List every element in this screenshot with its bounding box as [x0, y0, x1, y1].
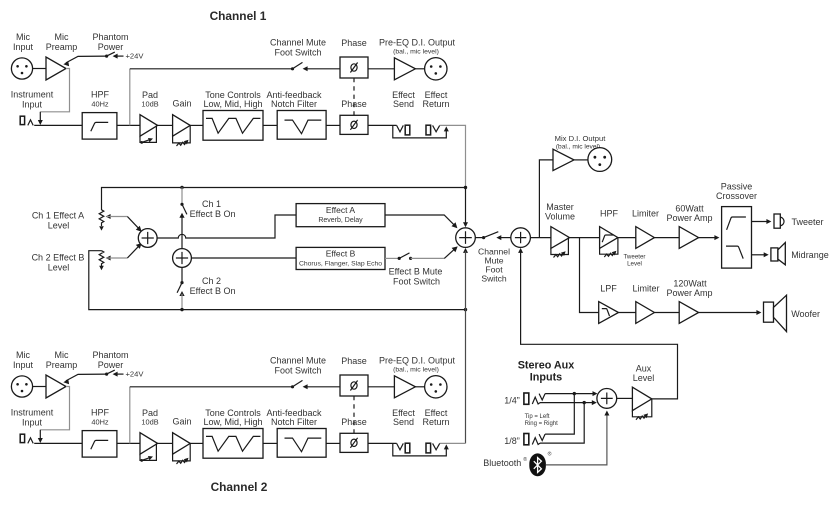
svg-text:Channel 2: Channel 2: [211, 480, 268, 494]
effect send jack contact (ch1): [397, 125, 404, 131]
passive crossover block: [722, 207, 752, 269]
gain control amplifier (ch2): [173, 433, 191, 455]
svg-text:Midrange: Midrange: [791, 250, 829, 260]
anti-feedback notch filter block (ch2): [277, 429, 326, 458]
phase switch block (ch2 main): [340, 433, 368, 452]
svg-text:Passive: Passive: [721, 182, 753, 192]
effect B mute foot switch: [398, 257, 401, 260]
svg-text:Effect B Mute: Effect B Mute: [389, 267, 443, 277]
svg-text:Instrument: Instrument: [11, 90, 54, 100]
wire branch up to mix DI: [539, 160, 553, 238]
pre-EQ DI output amplifier (ch1): [394, 58, 415, 80]
svg-text:Mic: Mic: [55, 350, 69, 360]
svg-text:Limiter: Limiter: [632, 283, 659, 293]
svg-text:Input: Input: [13, 360, 34, 370]
svg-text:Phantom: Phantom: [92, 32, 128, 42]
svg-text:Foot Switch: Foot Switch: [274, 366, 321, 376]
svg-text:Mic: Mic: [16, 32, 30, 42]
limiter (tweeter path): [636, 227, 655, 249]
svg-text:Inputs: Inputs: [530, 371, 562, 383]
svg-text:Ch 1 Effect A: Ch 1 Effect A: [32, 210, 84, 220]
wire 1/8 tip up to tip bus: [540, 403, 584, 444]
svg-text:Effect B On: Effect B On: [190, 286, 236, 296]
wire channel 1 effects tap rail: [102, 188, 466, 211]
junction ch1 rail / ch1 signal line: [464, 186, 467, 189]
svg-text:Input: Input: [22, 418, 43, 428]
mix DI XLR output jack: [588, 148, 612, 172]
svg-text:Phase: Phase: [341, 417, 367, 427]
aux summing node: [597, 389, 617, 409]
svg-text:Aux: Aux: [636, 363, 652, 373]
phase switch block (ch2 top): [340, 375, 368, 396]
svg-text:60Watt: 60Watt: [675, 204, 704, 214]
tone controls block (ch1): [203, 111, 263, 141]
svg-text:Tweeter: Tweeter: [623, 254, 645, 261]
svg-text:Level: Level: [48, 262, 70, 272]
Bluetooth module logo: [529, 453, 546, 476]
svg-text:Input: Input: [22, 100, 43, 110]
svg-text:Level: Level: [627, 261, 642, 268]
svg-text:Stereo Aux: Stereo Aux: [518, 359, 575, 371]
wire aux sum to aux level: [617, 397, 633, 399]
wire notch to phase (ch2): [326, 442, 340, 444]
svg-text:1/4”: 1/4”: [504, 396, 520, 406]
dashed gang link between phase switches (ch2): [353, 396, 355, 433]
dashed gang link between phase switches (ch1): [353, 78, 355, 115]
svg-text:Volume: Volume: [545, 211, 575, 221]
wire limiter to 60W amp: [654, 237, 679, 239]
phantom power switch (ch1): [105, 55, 108, 58]
instrument input jack (ch1): [20, 116, 24, 124]
pad attenuator triangle (ch2): [140, 433, 158, 455]
wiper Ch2 Effect B Level to sum node A: [106, 256, 111, 261]
mix DI output amplifier: [553, 149, 574, 170]
svg-text:®: ®: [548, 451, 552, 458]
wire HPF to pad (ch2): [117, 442, 140, 444]
wire 1/4 ring to sum: [545, 393, 574, 395]
wire mute switch to aux sum node: [501, 237, 511, 239]
svg-text:Preamp: Preamp: [46, 42, 78, 52]
wire DI amp to mix XLR: [574, 159, 588, 161]
wire phase to pre-EQ DI amp (ch1): [368, 68, 394, 70]
wire ring bus into aux sum node: [574, 393, 594, 395]
wire effect A output to mix node: [385, 215, 456, 226]
switch Ch 2 Effect B On: [181, 267, 183, 281]
effects loop normal path (ch2): [393, 443, 447, 456]
wire HPF to pad (ch1): [117, 124, 140, 126]
svg-text:Gain: Gain: [172, 417, 191, 427]
wire gain to tone controls (ch2): [190, 442, 203, 444]
master volume amplifier: [551, 227, 570, 249]
junction ch2 rail / effect B feed: [180, 308, 183, 311]
pre-EQ DI XLR output jack (ch1): [425, 58, 447, 80]
wire effect B output to mute switch: [385, 257, 398, 259]
wire mute switch to phase (ch1): [306, 68, 341, 70]
wire 1/4 tip to sum: [540, 402, 584, 404]
mic preamp amplifier (ch1): [46, 57, 66, 80]
svg-text:Woofer: Woofer: [791, 309, 820, 319]
svg-text:Channel 1: Channel 1: [210, 9, 267, 23]
svg-text:Bluetooth: Bluetooth: [483, 458, 521, 468]
svg-text:LPF: LPF: [600, 283, 617, 293]
wire DI amp to XLR (ch2): [415, 386, 424, 388]
svg-text:10dB: 10dB: [141, 417, 158, 426]
svg-text:Pre-EQ D.I. Output: Pre-EQ D.I. Output: [379, 38, 456, 48]
wire main sum node to master volume: [530, 237, 551, 239]
svg-text:Ch 2 Effect B: Ch 2 Effect B: [32, 252, 85, 262]
wire notch to phase (ch1): [326, 124, 340, 126]
junction ch1 rail / effect B feed: [180, 186, 183, 189]
channel mute foot switch (ch1): [291, 67, 294, 70]
wire channel 2 effects tap rail: [89, 251, 466, 310]
instrument input jack (ch2): [20, 434, 24, 442]
summing node mix (channel mix): [456, 228, 476, 248]
svg-text:Switch: Switch: [481, 274, 507, 284]
svg-text:Low, Mid, High: Low, Mid, High: [203, 99, 262, 109]
wire tone to notch (ch2): [263, 442, 277, 444]
HPF block (ch1): [82, 113, 117, 140]
wire top row to channel mute switch (ch1): [130, 68, 291, 70]
effect send jack contact (ch2): [397, 443, 404, 449]
pre-EQ DI XLR output jack (ch2): [425, 376, 447, 398]
svg-text:Foot Switch: Foot Switch: [274, 48, 321, 58]
svg-text:Power Amp: Power Amp: [666, 213, 712, 223]
svg-text:+24V: +24V: [126, 370, 145, 379]
120 watt power amplifier: [679, 302, 698, 324]
wire master volume to HPF: [570, 237, 600, 239]
wire mic preamp output routed down to instrument line (ch2): [40, 387, 69, 430]
phase switch block (ch1 main): [340, 115, 368, 134]
wire branch up to mute/DI row (ch1): [129, 69, 131, 126]
wire pad to gain (ch2): [158, 442, 173, 444]
svg-text:Tweeter: Tweeter: [792, 217, 824, 227]
svg-text:Channel Mute: Channel Mute: [270, 38, 326, 48]
svg-text:Effect A: Effect A: [326, 205, 355, 215]
svg-text:Notch Filter: Notch Filter: [271, 99, 317, 109]
wire DI amp to XLR (ch1): [415, 68, 424, 70]
channel mute foot switch (master): [482, 236, 485, 239]
summing node B (effect B send mix): [173, 249, 192, 268]
svg-text:Return: Return: [422, 417, 449, 427]
effect send jack (ch2): [405, 443, 410, 453]
wire limiter to 120W amp: [654, 312, 679, 314]
wire branch up to mute/DI row (ch2): [129, 387, 131, 444]
svg-text:Preamp: Preamp: [46, 360, 78, 370]
svg-text:Return: Return: [422, 99, 449, 109]
wire jack to HPF (ch2): [34, 442, 82, 444]
HPF block (ch2): [82, 431, 117, 458]
svg-text:Gain: Gain: [172, 99, 191, 109]
svg-text:Power: Power: [98, 42, 124, 52]
svg-text:Phase: Phase: [341, 99, 367, 109]
wire crossover to midrange with arrow: [752, 254, 766, 256]
wire LPF to limiter: [619, 312, 636, 314]
potentiometer Ch 1 Effect A Level: [99, 210, 104, 226]
wire mic XLR to preamp (ch2): [33, 386, 46, 388]
phantom power switch (ch2): [105, 373, 108, 376]
mic preamp amplifier (ch2): [46, 375, 66, 398]
pre-EQ DI output amplifier (ch2): [394, 376, 415, 398]
wire tip bus into aux sum node: [584, 402, 593, 404]
phase switch block (ch1 top): [340, 57, 368, 78]
tone controls block (ch2): [203, 429, 263, 459]
svg-text:Tip = Left: Tip = Left: [525, 414, 550, 420]
woofer speaker: [764, 302, 774, 322]
wire 120W amp to woofer with arrow: [699, 312, 758, 314]
wire aux return up into main sum node: [518, 248, 523, 253]
wire node B to effect B block: [191, 257, 296, 259]
effects loop normal path (ch1): [393, 125, 447, 137]
svg-text:Mix D.I. Output: Mix D.I. Output: [555, 134, 607, 143]
svg-text:1/8”: 1/8”: [504, 436, 520, 446]
svg-text:Reverb, Delay: Reverb, Delay: [318, 217, 363, 224]
anti-feedback notch filter block (ch1): [277, 111, 326, 140]
aux level amplifier: [632, 387, 651, 410]
wire mic preamp output routed down to instrument line (ch1): [40, 69, 69, 112]
channel mute foot switch (ch2): [291, 385, 294, 388]
svg-text:Mic: Mic: [16, 350, 30, 360]
instrument jack contact (ch2): [28, 438, 33, 444]
wire mix node to channel mute switch: [475, 237, 482, 239]
effect send jack (ch1): [405, 125, 410, 135]
svg-text:HPF: HPF: [91, 90, 110, 100]
svg-text:(bal., mic level): (bal., mic level): [393, 367, 439, 374]
wire jack to HPF (ch1): [34, 124, 82, 126]
svg-text:Notch Filter: Notch Filter: [271, 417, 317, 427]
effect return jack (ch1): [426, 125, 431, 135]
effect return jack contact (ch1): [433, 125, 440, 131]
svg-text:Effect B: Effect B: [326, 249, 356, 259]
svg-text:40Hz: 40Hz: [91, 100, 109, 109]
junction ch2 rail / ch2 signal line: [464, 308, 467, 311]
svg-text:Input: Input: [13, 42, 34, 52]
eighth inch stereo aux jack: [524, 434, 529, 445]
svg-text:Low, Mid, High: Low, Mid, High: [203, 417, 262, 427]
summing node A (effect A send mix): [138, 229, 157, 248]
svg-text:Instrument: Instrument: [11, 408, 54, 418]
svg-text:Crossover: Crossover: [716, 191, 757, 201]
svg-text:Phase: Phase: [341, 38, 367, 48]
60 watt power amplifier: [679, 227, 698, 249]
potentiometer Ch 2 Effect B Level: [99, 251, 104, 267]
wire effect B mute switch to mix node: [411, 257, 445, 259]
svg-text:Channel Mute: Channel Mute: [270, 356, 326, 366]
svg-text:Ch 1: Ch 1: [202, 199, 221, 209]
wire phantom switch to preamp with arrow (ch2): [66, 374, 107, 381]
wire HPF to limiter: [618, 237, 636, 239]
wire branch down to LPF row: [580, 238, 599, 313]
effect return jack (ch2): [426, 443, 431, 453]
junction tip bus: [583, 401, 586, 404]
svg-text:Power Amp: Power Amp: [666, 288, 712, 298]
LPF filter (woofer path): [599, 302, 619, 324]
svg-text:Phase: Phase: [341, 356, 367, 366]
svg-text:Foot Switch: Foot Switch: [393, 277, 440, 287]
mic input XLR jack J1 (ch1): [11, 58, 32, 79]
mic input XLR jack (ch2): [11, 376, 32, 397]
svg-text:HPF: HPF: [600, 209, 619, 219]
pad attenuator triangle (ch1): [140, 115, 158, 137]
svg-text:Send: Send: [393, 99, 414, 109]
wire gain to tone controls (ch1): [190, 124, 203, 126]
wire mute switch to phase (ch2): [306, 386, 341, 388]
wire top row to channel mute switch (ch2): [130, 386, 291, 388]
svg-text:+24V: +24V: [126, 52, 145, 61]
svg-text:HPF: HPF: [91, 408, 110, 418]
svg-text:Phantom: Phantom: [92, 350, 128, 360]
svg-text:Master: Master: [546, 202, 574, 212]
wire ch2 signal up into mix node: [463, 248, 468, 253]
wire phase to effect send (ch1): [368, 124, 397, 126]
junction ring bus: [573, 392, 576, 395]
wire phase to effect send (ch2): [368, 442, 397, 444]
wire tone to notch (ch1): [263, 124, 277, 126]
quarter inch stereo aux jack: [524, 393, 529, 404]
svg-text:Level: Level: [633, 373, 655, 383]
svg-text:Pre-EQ D.I. Output: Pre-EQ D.I. Output: [379, 356, 456, 366]
svg-text:Ring = Right: Ring = Right: [525, 421, 559, 427]
tweeter speaker: [774, 214, 780, 228]
svg-text:®: ®: [523, 456, 527, 463]
instrument jack contact (ch1): [28, 120, 33, 126]
svg-text:Mic: Mic: [55, 32, 69, 42]
svg-text:Level: Level: [48, 220, 70, 230]
midrange speaker: [771, 248, 778, 261]
wire 60W amp to crossover with arrow: [699, 237, 716, 239]
wire 1/8 ring up to ring bus: [545, 394, 574, 435]
HPF filter with tweeter level: [600, 227, 618, 249]
wire effect return down to mix node (ch1): [440, 125, 466, 187]
wire phase to pre-EQ DI amp (ch2): [368, 386, 394, 388]
wire node A to effect A block with hop over crossing line: [157, 215, 296, 238]
switch Ch 1 Effect B On: [181, 188, 183, 204]
wire phantom switch to preamp with arrow (ch1): [66, 56, 107, 63]
gain control amplifier (ch1): [173, 115, 191, 137]
effect B block (Chorus, Flanger, Slap Echo): [296, 247, 385, 269]
svg-text:Effect B On: Effect B On: [190, 209, 236, 219]
effect A block (Reverb, Delay): [296, 204, 385, 227]
wire mic XLR to preamp (ch1): [33, 68, 46, 70]
svg-text:120Watt: 120Watt: [673, 278, 707, 288]
svg-text:Ch 2: Ch 2: [202, 276, 221, 286]
summing node main (mix + aux): [511, 228, 531, 248]
svg-text:40Hz: 40Hz: [91, 418, 109, 427]
svg-text:10dB: 10dB: [141, 99, 158, 108]
limiter (woofer path): [636, 302, 655, 324]
wire crossover to tweeter with arrow: [752, 221, 769, 223]
wire Bluetooth into aux sum node: [546, 413, 607, 465]
wire pad to gain (ch1): [158, 124, 173, 126]
svg-text:Send: Send: [393, 417, 414, 427]
svg-text:Limiter: Limiter: [632, 209, 659, 219]
svg-text:Power: Power: [98, 360, 124, 370]
effect return jack contact (ch2): [433, 443, 440, 449]
svg-text:(bal., mic level): (bal., mic level): [393, 49, 439, 56]
svg-text:Chorus, Flanger, Slap Echo: Chorus, Flanger, Slap Echo: [299, 261, 382, 268]
wiper Ch1 Effect A Level to sum node A: [106, 214, 111, 219]
